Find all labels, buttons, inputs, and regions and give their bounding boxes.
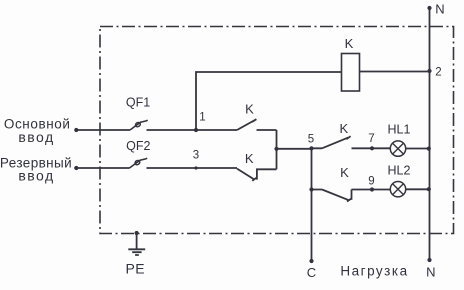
relay coil K bbox=[342, 54, 360, 92]
row2 left junction dot bbox=[309, 187, 313, 191]
enclosure dash-dot border bbox=[100, 27, 454, 234]
svg-text:ввод: ввод bbox=[18, 129, 54, 145]
svg-text:2: 2 bbox=[435, 67, 441, 79]
breaker QF2 bbox=[130, 158, 148, 168]
wire reserve input W2 bbox=[76, 167, 237, 169]
contact K changeover top blade bbox=[237, 119, 256, 130]
wire coil to N line bbox=[360, 71, 430, 73]
wire main input W1 bbox=[76, 129, 237, 131]
svg-text:K: K bbox=[245, 101, 254, 116]
lamp2 right junction dot bbox=[427, 187, 431, 191]
contact K row1 blade bbox=[322, 136, 351, 148]
node 9 junction dot bbox=[370, 187, 374, 191]
node 1 junction dot bbox=[194, 128, 198, 132]
contact K changeover bottom fixed L bbox=[257, 169, 277, 179]
lamp1 right junction dot bbox=[427, 147, 431, 151]
wire changeover common vertical bbox=[276, 130, 278, 169]
contact K row2 fixed tick bbox=[351, 190, 353, 200]
contact K changeover top fixed bbox=[257, 129, 277, 131]
wire right N line bbox=[429, 8, 431, 260]
contact K row2 blade bbox=[322, 190, 351, 202]
wire HL1 row bbox=[312, 147, 430, 149]
svg-text:K: K bbox=[339, 121, 348, 136]
node 3 junction dot bbox=[194, 166, 197, 169]
svg-text:3: 3 bbox=[193, 149, 199, 161]
svg-text:9: 9 bbox=[368, 176, 374, 188]
wire node1 to coil riser bbox=[196, 72, 342, 130]
lamp HL2 bbox=[390, 182, 405, 197]
svg-text:Нагрузка: Нагрузка bbox=[340, 264, 408, 279]
svg-text:K: K bbox=[345, 36, 354, 51]
svg-text:PE: PE bbox=[125, 260, 145, 276]
breaker QF1 bbox=[130, 120, 148, 130]
lamp HL1 bbox=[390, 141, 405, 156]
ground PE junction dot bbox=[135, 231, 139, 235]
svg-text:ввод: ввод bbox=[18, 168, 54, 184]
terminal dot C bbox=[309, 259, 313, 263]
wire changeover output to node5 bbox=[277, 148, 312, 150]
svg-text:N: N bbox=[426, 264, 435, 279]
contact K changeover bottom blade bbox=[237, 169, 256, 181]
svg-text:QF1: QF1 bbox=[126, 95, 150, 109]
svg-text:C: C bbox=[307, 265, 316, 280]
svg-text:N: N bbox=[435, 2, 444, 17]
node 2 junction dot bbox=[427, 69, 431, 73]
wire node5 down to C terminal bbox=[311, 149, 313, 262]
wire HL2 row bbox=[312, 188, 430, 190]
svg-text:K: K bbox=[245, 151, 254, 166]
terminal dot N bottom bbox=[427, 258, 431, 262]
node 7 junction dot bbox=[370, 146, 374, 150]
svg-text:HL1: HL1 bbox=[388, 123, 411, 137]
svg-text:7: 7 bbox=[368, 133, 374, 145]
terminal dot reserve input bbox=[74, 166, 78, 170]
changeover output junction dot bbox=[274, 147, 278, 151]
terminal dot N top bbox=[427, 6, 431, 10]
svg-text:QF2: QF2 bbox=[126, 139, 150, 153]
svg-text:1: 1 bbox=[199, 112, 205, 124]
svg-text:K: K bbox=[340, 165, 349, 180]
terminal dot main input bbox=[74, 128, 78, 132]
svg-text:HL2: HL2 bbox=[388, 163, 411, 177]
ground PE bars bbox=[128, 249, 145, 255]
ground PE stem bbox=[136, 233, 138, 249]
node 5 junction dot bbox=[309, 146, 313, 150]
svg-text:5: 5 bbox=[308, 133, 314, 145]
